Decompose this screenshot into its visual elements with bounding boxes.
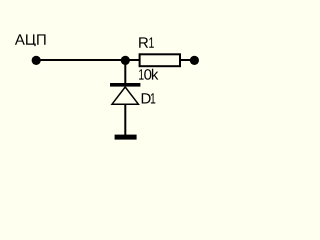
label D1 — [142, 93, 156, 103]
ground symbol — [115, 135, 137, 140]
label R1 — [139, 37, 154, 47]
resistor R1 body — [140, 54, 180, 66]
wire: junction down to D1 cathode — [124, 60, 126, 84]
wire: D1 anode to ground — [124, 104, 126, 135]
wire: АЦП terminal to R1 left pin — [36, 59, 139, 61]
value 10k — [139, 69, 158, 80]
junction node at R1/D1 — [121, 56, 130, 65]
node АЦП terminal dot — [32, 56, 41, 65]
output node dot — [190, 56, 199, 65]
diode D1 cathode bar — [110, 83, 140, 87]
diode D1 triangle (anode, pointing up) — [112, 87, 138, 104]
wire: R1 right pin to output dot — [181, 59, 195, 61]
node АЦП label — [15, 34, 46, 46]
